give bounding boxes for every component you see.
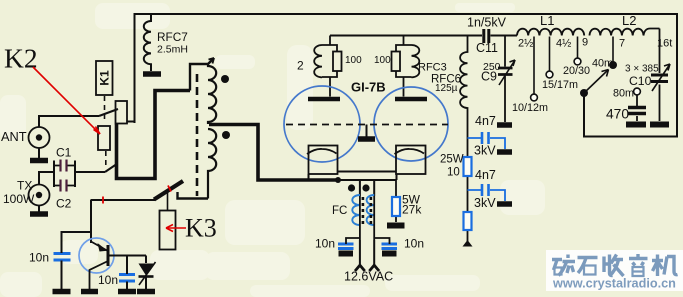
ground 10n left	[53, 289, 71, 295]
svg-text:RFC7: RFC7	[157, 30, 188, 44]
svg-text:C10: C10	[629, 74, 652, 88]
ground Q1 collector	[81, 289, 98, 295]
connector ANT	[29, 127, 50, 148]
label 2.5mH	[157, 44, 188, 56]
label RFC7	[157, 30, 188, 44]
svg-text:GI-7B: GI-7B	[351, 80, 386, 95]
svg-text:2.5mH: 2.5mH	[157, 44, 188, 56]
label 80m	[613, 88, 634, 100]
node output-to-relay bend	[127, 121, 135, 123]
texture blobs	[0, 3, 545, 297]
wire ANT ground stub	[38, 148, 40, 158]
wire L1 tap 20/30	[577, 37, 579, 59]
tube V2 envelope	[374, 87, 448, 161]
anode bar V2	[395, 97, 427, 102]
svg-text:25W: 25W	[440, 154, 464, 166]
capacitor 10n left	[54, 254, 71, 261]
label ANT	[1, 129, 27, 144]
wire TX ground stub	[38, 206, 40, 213]
svg-text:3 × 385: 3 × 385	[625, 64, 659, 75]
svg-text:K3: K3	[185, 214, 217, 243]
wire thick TX path	[117, 91, 191, 179]
wire K2 dashed link	[105, 151, 107, 169]
switch wiper band	[584, 70, 609, 94]
ground TX	[30, 211, 48, 217]
wire cathode bus	[309, 174, 397, 180]
label TX	[17, 179, 32, 193]
label 3kV lower	[474, 196, 496, 210]
ground RFC7	[143, 71, 161, 77]
svg-text:125µ: 125µ	[435, 83, 458, 94]
svg-text:K2: K2	[4, 43, 38, 74]
capacitor 4n7 upper	[468, 132, 506, 149]
ground 470	[626, 122, 646, 128]
svg-text:FC: FC	[332, 205, 347, 217]
relay K3 coil box	[160, 211, 176, 250]
label 16t	[657, 38, 672, 50]
node polarity dot lower	[222, 131, 230, 139]
watermark cjk glyphs	[552, 254, 678, 276]
label 4n7 upper	[475, 114, 496, 128]
arrow B+ down	[463, 240, 473, 247]
inductor FC winding left	[352, 195, 360, 225]
terminal 10/12m	[531, 94, 538, 101]
label 470	[606, 107, 629, 122]
wire Q1 base	[110, 255, 147, 257]
label GI-7B	[351, 80, 386, 95]
label 10n left	[29, 251, 49, 265]
diode zener D1	[139, 256, 156, 290]
switch arm TX relay	[105, 164, 118, 173]
label 4half	[556, 38, 571, 50]
svg-text:80m: 80m	[613, 88, 634, 100]
ground 5W27k	[387, 223, 405, 229]
capacitor 10n base	[119, 275, 135, 282]
wire 10n left top	[62, 232, 92, 253]
label C1	[56, 146, 72, 160]
node wiper pivot	[580, 89, 588, 97]
wire TX up to C1C2	[39, 172, 54, 185]
svg-text:27k: 27k	[402, 203, 422, 217]
svg-text:10n: 10n	[315, 237, 335, 251]
label 10/12m	[512, 102, 548, 114]
label 3x385	[625, 64, 659, 75]
tube V1 envelope	[284, 86, 360, 162]
node cathode junction	[335, 177, 341, 183]
label RFC6	[431, 74, 461, 86]
transformer T1 input lead	[190, 58, 214, 91]
ground zener	[137, 289, 155, 295]
wire FC stems black	[360, 196, 374, 240]
watermark url	[552, 277, 676, 291]
capacitor 4n7 lower	[468, 184, 506, 201]
label C9	[481, 70, 497, 84]
wire main B+ column	[467, 155, 469, 242]
resistor 5W 27k	[392, 180, 400, 222]
label L2	[622, 13, 636, 28]
wire output top loop	[135, 14, 678, 137]
wire C11 to L1	[491, 35, 518, 37]
capacitor 10n fil-left	[338, 244, 354, 249]
label RFC3	[418, 62, 447, 74]
svg-text:100: 100	[374, 55, 391, 66]
ground 10n fil-left	[339, 251, 354, 257]
inductor RFC7	[144, 14, 151, 71]
wire K3 coil link	[167, 189, 169, 211]
label 12.6VAC	[344, 270, 393, 284]
svg-text:RFC3: RFC3	[418, 62, 447, 74]
svg-text:2½: 2½	[518, 38, 533, 50]
svg-text:C1: C1	[56, 146, 72, 160]
ground C10	[650, 122, 669, 128]
capacitor C1	[54, 160, 75, 172]
arrow 12.6VAC left	[355, 265, 365, 271]
svg-text:3kV: 3kV	[474, 196, 496, 210]
label 27k	[402, 203, 422, 217]
svg-text:ANT: ANT	[1, 129, 27, 144]
wire ANT up	[39, 116, 99, 127]
node polarity dot upper	[221, 75, 229, 83]
capacitor C10 variable	[651, 29, 670, 122]
svg-text:2: 2	[297, 59, 304, 73]
connector TX	[29, 185, 50, 206]
wire 10n fil-left lead	[346, 238, 360, 244]
transistor Q1	[79, 238, 114, 289]
label 4n7 lower	[475, 168, 496, 182]
label FC	[332, 205, 347, 217]
label 2 (RFC2)	[297, 59, 304, 73]
label 40m	[592, 58, 613, 70]
ground grid bar	[358, 136, 375, 142]
grid dashed line	[286, 124, 448, 126]
label 125u	[435, 83, 458, 94]
svg-text:12.6VAC: 12.6VAC	[344, 270, 393, 284]
cathode box V1	[307, 146, 338, 175]
node FC dot left	[348, 184, 355, 191]
svg-text:TX: TX	[17, 179, 32, 193]
label 9	[582, 37, 588, 49]
wire 10n base leads	[126, 256, 128, 290]
node FC dot right	[362, 184, 369, 191]
watermark panel	[546, 250, 683, 291]
label K2	[4, 43, 38, 74]
label L1	[540, 13, 554, 28]
capacitor C2	[54, 180, 75, 192]
inductor RFC6	[460, 36, 467, 156]
terminal 80m	[634, 88, 641, 95]
capacitor C11	[484, 29, 489, 43]
annotation red arrow K2	[33, 67, 100, 134]
capacitor C9 variable	[498, 36, 515, 123]
transformer T1 winding lower	[208, 129, 216, 199]
inductor L1	[517, 29, 584, 36]
svg-text:L1: L1	[540, 13, 554, 28]
core FC dots	[362, 197, 373, 224]
label 7	[619, 38, 625, 50]
relay K1 coil box	[96, 61, 113, 95]
label 100W	[3, 192, 35, 206]
label C2	[56, 197, 72, 211]
ground C9	[497, 122, 512, 128]
label 25W	[440, 154, 464, 166]
svg-text:7: 7	[619, 38, 625, 50]
svg-text:10/12m: 10/12m	[512, 102, 548, 114]
annotation red tick on K3 arm	[168, 186, 171, 192]
switch arm ANT relay	[99, 109, 118, 116]
svg-text:40m: 40m	[592, 58, 613, 70]
svg-text:1n/5kV: 1n/5kV	[467, 16, 507, 30]
label 20/30	[563, 65, 590, 77]
relay contact block	[116, 101, 128, 124]
node 40m tap dot	[609, 61, 617, 69]
label C11	[476, 41, 498, 55]
inductor FC winding right	[367, 195, 375, 225]
wire T1 tap to cathodes	[209, 125, 338, 181]
switch arm K3	[154, 181, 183, 200]
svg-text:470: 470	[606, 107, 629, 122]
label 3kV upper	[474, 144, 496, 158]
label C10	[629, 74, 652, 88]
label 10n fil-left	[315, 237, 335, 251]
svg-text:3kV: 3kV	[474, 144, 496, 158]
terminal 15/17m	[546, 71, 553, 78]
wire 10n fil-right lead	[374, 238, 389, 244]
label 100 tube1	[345, 55, 362, 66]
label 10	[447, 167, 460, 179]
annotation red tick on wire	[102, 197, 104, 204]
wire L2 tap 40m	[612, 37, 614, 63]
svg-text:www.crystalradio.cn: www.crystalradio.cn	[552, 277, 676, 291]
svg-text:C2: C2	[56, 197, 72, 211]
svg-text:15/17m: 15/17m	[542, 79, 578, 91]
svg-text:4n7: 4n7	[475, 168, 496, 182]
ground 10n fil-right	[382, 251, 397, 257]
wire cathode link	[338, 171, 396, 173]
anode bar V1	[308, 97, 340, 102]
suppressor R-L tube2 RFC3	[392, 36, 420, 97]
transformer T1 winding upper	[208, 64, 216, 124]
wire K1 dashed link	[104, 96, 106, 119]
label 100 tube2	[374, 55, 391, 66]
wire K3 common	[91, 199, 156, 201]
label 15/17m	[542, 79, 578, 91]
wire L1 tap 10/12m	[533, 37, 535, 95]
wire anode rail	[330, 35, 482, 37]
svg-text:9: 9	[582, 37, 588, 49]
svg-text:L2: L2	[622, 13, 636, 28]
suppressor L-R tube1	[314, 36, 341, 97]
wire 10n left bottom	[61, 261, 63, 290]
wire FC drops	[360, 180, 374, 196]
svg-text:10: 10	[447, 167, 460, 179]
ground 4n7 lower	[497, 201, 512, 207]
svg-text:C9: C9	[481, 70, 497, 84]
label 1n/5kV	[467, 16, 507, 30]
label 2half	[518, 38, 533, 50]
svg-text:C11: C11	[476, 41, 498, 55]
svg-text:20/30: 20/30	[563, 65, 590, 77]
transformer T1 core dashed	[196, 74, 199, 196]
label 10n base	[98, 273, 118, 287]
wire grid to ground	[366, 125, 368, 138]
capacitor 470	[628, 95, 646, 121]
svg-text:K1: K1	[98, 70, 112, 86]
terminal 20/30	[574, 58, 581, 65]
wire emitter drop	[90, 200, 92, 243]
resistor 25W 10	[464, 157, 472, 176]
cathode box V2	[395, 146, 426, 175]
wire C1C2 buses	[54, 161, 105, 188]
inductor L2	[590, 29, 660, 36]
svg-text:10n: 10n	[29, 251, 49, 265]
wire T1 bottom return	[178, 192, 209, 199]
resistor lower glitch	[464, 212, 472, 230]
annotation red arrow K3	[166, 225, 186, 232]
ground 10n base	[118, 289, 136, 295]
wire L1 tap 15/17m	[549, 37, 551, 72]
svg-text:100: 100	[345, 55, 362, 66]
svg-text:10n: 10n	[404, 237, 424, 251]
svg-text:100W: 100W	[3, 192, 35, 206]
label 250	[483, 61, 501, 73]
label 10n fil-right	[404, 237, 424, 251]
relay K2 coil box	[98, 126, 110, 150]
label K3	[185, 214, 217, 243]
wire 12.6VAC leads	[360, 240, 374, 265]
arrow 12.6VAC right	[369, 265, 379, 271]
svg-text:4½: 4½	[556, 38, 571, 50]
svg-text:4n7: 4n7	[475, 114, 496, 128]
capacitor 10n fil-right	[382, 244, 398, 249]
ground 4n7 upper	[497, 149, 512, 155]
label 5W	[402, 193, 421, 207]
ground ANT	[30, 158, 48, 164]
svg-text:10n: 10n	[98, 273, 118, 287]
